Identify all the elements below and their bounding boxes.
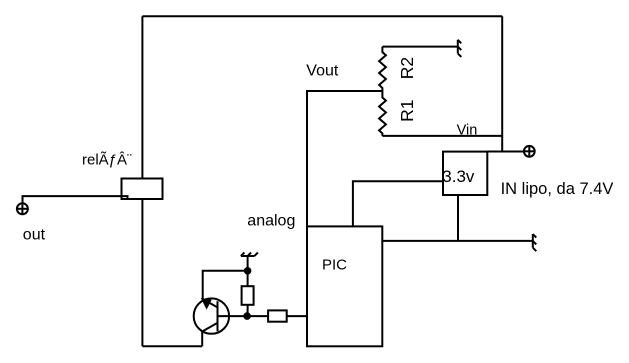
- svg-text:Vout: Vout: [306, 62, 339, 79]
- svg-text:analog: analog: [247, 213, 295, 230]
- svg-text:IN lipo, da 7.4V: IN lipo, da 7.4V: [501, 180, 614, 198]
- wire resistor R4 to PIC: [287, 315, 307, 317]
- ground right of PIC: [533, 234, 537, 251]
- wire regulator left to PIC top: [353, 181, 443, 226]
- relay K1: [122, 179, 163, 200]
- wire top rail horizontal: [142, 15, 502, 17]
- svg-text:relÃƒÂ¨: relÃƒÂ¨: [82, 152, 132, 169]
- wire R2 top to ground: [382, 46, 457, 48]
- resistor R3 (base-emitter): [242, 286, 254, 305]
- wire relay to collector branch vertical: [141, 199, 143, 346]
- wire node to resistor R3: [247, 271, 249, 286]
- terminal IN plus-circle: [524, 146, 535, 157]
- resistor R2: [379, 47, 386, 91]
- svg-text:Vin: Vin: [457, 123, 478, 139]
- wire Vin horizontal: [382, 135, 502, 137]
- node A junction dot: [245, 268, 251, 274]
- svg-text:R1: R1: [397, 100, 417, 122]
- svg-text:R2: R2: [397, 57, 417, 79]
- svg-text:3.3v: 3.3v: [442, 167, 475, 186]
- wire resistor R3 to base node: [247, 305, 249, 316]
- svg-text:PIC: PIC: [322, 257, 347, 274]
- resistor R4 (base series): [268, 310, 287, 321]
- node B base junction dot: [244, 313, 250, 319]
- wire regulator bottom to ground rail: [457, 195, 459, 241]
- svg-text:out: out: [23, 227, 46, 244]
- resistor R1: [379, 91, 386, 136]
- ground right of R2: [458, 40, 462, 57]
- regulator U2 3.3v: [443, 152, 487, 195]
- wire right rail vertical: [501, 16, 503, 151]
- ground above transistor: [241, 253, 258, 271]
- wire regulator to plus terminal: [487, 151, 524, 153]
- transistor Q1: [194, 298, 247, 346]
- wire base node to resistor R4: [247, 315, 268, 317]
- wire emitter up and right to node: [203, 271, 248, 299]
- wire bottom horizontal to collector: [142, 345, 202, 347]
- wire top-left vertical (relay to top rail): [141, 16, 143, 178]
- PIC U1: [307, 226, 382, 346]
- wire out terminal to relay: [23, 196, 128, 203]
- wire Vout from divider to PIC: [307, 91, 382, 226]
- terminal out plus-circle: [17, 203, 28, 214]
- wire PIC to right ground: [382, 240, 533, 242]
